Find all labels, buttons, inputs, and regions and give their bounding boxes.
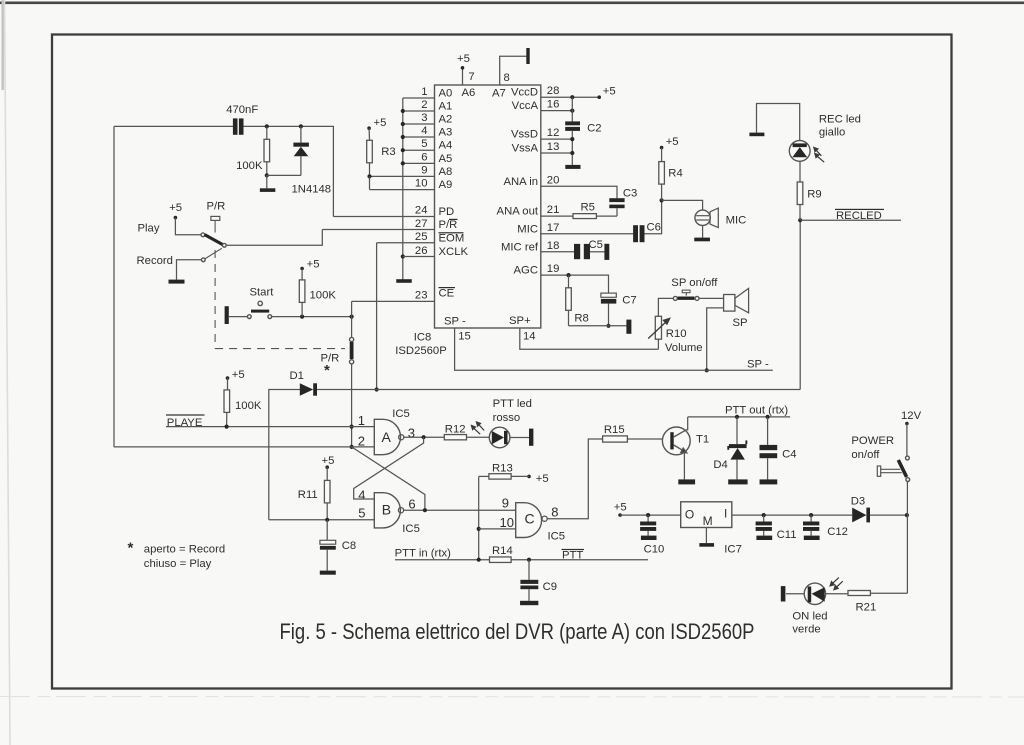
wire pin 7 (A6) to +5: [462, 68, 464, 85]
capacitor C2: [565, 121, 580, 125]
svg-text:M: M: [703, 514, 713, 528]
wire gate C pin 10: [479, 528, 516, 530]
wire PTT out line: [688, 416, 790, 418]
svg-text:IC5: IC5: [402, 523, 420, 535]
terminal bar C5: [604, 244, 609, 260]
wire gate B output: [404, 509, 516, 511]
svg-text:B: B: [382, 502, 391, 518]
junction C4: [766, 415, 770, 419]
svg-text:100K: 100K: [236, 160, 263, 172]
regulator IC7: [681, 502, 732, 528]
junction speaker SP-: [705, 368, 709, 372]
wire C3 to pin 21: [616, 208, 618, 216]
wire T1 emitter to ground: [683, 451, 685, 479]
wire Start left: [229, 316, 248, 318]
svg-text:28: 28: [547, 85, 560, 97]
junction Start CE: [350, 315, 354, 319]
svg-text:R11: R11: [298, 489, 318, 501]
wire pin 8 (A7): [500, 56, 527, 85]
svg-text:Fig. 5 - Schema elettrico del: Fig. 5 - Schema elettrico del DVR (parte…: [280, 619, 755, 644]
wire C9 top: [528, 560, 530, 580]
svg-text:D4: D4: [713, 459, 727, 471]
wire left net vertical: [113, 126, 115, 447]
svg-text:R13: R13: [492, 463, 513, 475]
wire pin 5 (A4): [403, 149, 435, 151]
svg-text:7: 7: [468, 71, 474, 83]
svg-text:3: 3: [421, 112, 427, 124]
microphone MIC: [695, 210, 710, 225]
svg-text:8: 8: [504, 72, 510, 84]
svg-text:C6: C6: [647, 222, 661, 234]
wire MIC to ground: [702, 226, 704, 238]
capacitor C5: [574, 244, 580, 259]
svg-text:SP: SP: [733, 317, 748, 329]
svg-text:VssD: VssD: [511, 129, 538, 141]
svg-text:9: 9: [502, 496, 509, 511]
svg-text:C10: C10: [644, 544, 665, 556]
wire pin 20 ANA in: [541, 186, 617, 198]
svg-text:+5: +5: [614, 502, 627, 514]
junction Start pullup: [300, 315, 304, 319]
svg-text:17: 17: [547, 222, 560, 234]
svg-text:RECLED: RECLED: [836, 210, 882, 222]
diode D 1N4148: [293, 143, 309, 147]
svg-text:Play: Play: [138, 223, 160, 235]
wire R15 to T1: [627, 438, 662, 440]
wire R12 to LED: [467, 436, 490, 438]
svg-text:POWER: POWER: [851, 435, 894, 447]
svg-text:A8: A8: [439, 166, 453, 178]
node +5 Play: [174, 216, 178, 220]
svg-text:aperto = Record: aperto = Record: [144, 544, 225, 556]
terminal bar AGC: [626, 320, 631, 334]
svg-text:C4: C4: [782, 449, 796, 461]
ground C4: [760, 479, 778, 484]
svg-text:R10: R10: [666, 328, 687, 340]
wire Start right: [272, 316, 352, 318]
terminal bar ON led: [781, 586, 786, 601]
diode D1: [300, 383, 313, 395]
capacitor C12: [810, 515, 812, 521]
svg-text:T1: T1: [696, 434, 709, 446]
svg-text:A7: A7: [492, 88, 506, 100]
svg-text:+5: +5: [232, 369, 245, 381]
svg-text:6: 6: [408, 497, 415, 512]
wire R13 left vertical: [479, 475, 489, 477]
wire 100K body stubs: [266, 126, 268, 139]
svg-text:A5: A5: [439, 153, 453, 165]
svg-text:R15: R15: [604, 424, 625, 436]
svg-text:giallo: giallo: [819, 127, 845, 139]
wire T1 collector: [687, 417, 688, 430]
svg-text:25: 25: [415, 231, 428, 243]
capacitor C9: [520, 580, 538, 584]
wire pin 13: [541, 152, 573, 154]
svg-text:IC5: IC5: [548, 531, 566, 543]
svg-text:XCLK: XCLK: [439, 246, 469, 258]
svg-text:A: A: [382, 429, 392, 445]
wire IC7 output line: [732, 514, 852, 516]
junction C9: [527, 558, 531, 562]
resistor R21: [848, 591, 870, 596]
switch SP on/off: [673, 296, 677, 300]
switch P/R* bottom contact: [350, 360, 354, 364]
svg-text:+5: +5: [457, 53, 470, 65]
ground D4: [728, 479, 747, 484]
wire D3 to 12V rail: [870, 514, 907, 516]
svg-text:EOM: EOM: [439, 233, 465, 245]
wire pin 27 (P/R): [322, 229, 434, 231]
svg-text:IC7: IC7: [724, 544, 742, 556]
svg-text:16: 16: [547, 99, 560, 111]
junction: [401, 161, 405, 165]
ground C2: [565, 165, 580, 169]
wire PLAYE to gate A pin 1: [166, 426, 374, 428]
svg-text:1N4148: 1N4148: [292, 183, 332, 195]
LED REC led giallo: [789, 141, 810, 162]
junction gate A pin1: [350, 425, 354, 429]
node +5 VccD: [597, 95, 601, 99]
LED PTT arrows: [471, 422, 484, 434]
junction gate B out: [423, 508, 427, 512]
wire pullup stubs: [227, 378, 229, 390]
junction VssA: [570, 151, 574, 155]
svg-text:ANA in: ANA in: [503, 176, 538, 188]
svg-text:12: 12: [547, 127, 560, 139]
junction: [401, 122, 405, 126]
junction 12V rail: [905, 513, 909, 517]
wire C9 to ground: [528, 589, 530, 601]
svg-text:A6: A6: [462, 87, 476, 99]
wire address bus vertical: [402, 98, 404, 280]
svg-text:VccA: VccA: [512, 100, 539, 112]
svg-text:C2: C2: [587, 123, 601, 135]
svg-text:C: C: [525, 511, 535, 527]
switch P/R lever: [205, 235, 223, 245]
junction gate A out: [422, 435, 426, 439]
LED ON arrows: [830, 578, 843, 590]
junction R13 vertical R14: [477, 558, 481, 562]
svg-text:15: 15: [458, 331, 471, 343]
wire EOM vertical: [376, 243, 378, 390]
resistor 100K PLAYE pullup: [224, 390, 230, 413]
svg-text:24: 24: [415, 205, 428, 217]
LED PTT led rosso: [489, 427, 510, 448]
wire pin 9 (A8): [370, 175, 435, 177]
wire RECLED label line: [800, 219, 901, 221]
wire pin 3 (A2): [403, 123, 435, 125]
svg-text:3: 3: [408, 426, 415, 441]
zener diode D4: [729, 444, 747, 448]
wire D1 anode branch: [269, 390, 300, 520]
junction 100K top: [265, 124, 269, 128]
wire +5 to IC7: [620, 514, 681, 516]
capacitor C6: [633, 225, 638, 242]
wire pin 15 SP-: [455, 328, 773, 370]
svg-text:VssA: VssA: [512, 143, 539, 155]
junction 100K bottom: [265, 173, 269, 177]
svg-text:6: 6: [421, 151, 427, 163]
svg-text:D1: D1: [290, 370, 304, 382]
resistor R3: [367, 140, 373, 163]
junction pullup PLAYE: [225, 425, 229, 429]
wire gate C output to R15: [547, 439, 602, 519]
wire switch down rail: [906, 482, 908, 594]
wire REC led anode to bar: [757, 104, 800, 141]
svg-text:1: 1: [421, 86, 427, 98]
wire D4 bottom: [736, 460, 738, 480]
wire R3 stubs: [368, 128, 370, 140]
svg-text:Record: Record: [137, 255, 173, 267]
svg-text:ANA out: ANA out: [497, 206, 539, 218]
wire gate A output: [404, 436, 444, 438]
wire C7 bottom: [608, 304, 610, 326]
ground Record: [169, 280, 185, 284]
svg-text:+5: +5: [374, 117, 387, 129]
svg-text:SP on/off: SP on/off: [671, 277, 718, 289]
wire 100K bottom to diode: [267, 174, 301, 176]
ground 100K: [260, 188, 276, 192]
wire switch to speaker: [699, 297, 724, 299]
wire C2 bottom to ground: [571, 131, 573, 165]
svg-text:8: 8: [551, 505, 558, 520]
junction EOM D1: [375, 387, 379, 391]
wire C4 bottom: [767, 458, 769, 479]
junction 1N4148 top: [299, 124, 303, 128]
wire Play branch: [175, 218, 201, 235]
svg-text:R4: R4: [668, 168, 682, 180]
wire C4 top: [767, 417, 769, 445]
svg-text:I: I: [724, 507, 727, 521]
wire pin 10 (A9): [370, 189, 435, 191]
node +5 R3: [367, 126, 371, 130]
svg-text:+5: +5: [603, 85, 616, 97]
svg-text:20: 20: [547, 174, 560, 186]
capacitor C470 value 470nF: [233, 118, 238, 134]
wire pin 12: [541, 138, 573, 140]
svg-text:VccD: VccD: [511, 87, 538, 99]
svg-text:IC8: IC8: [414, 332, 432, 344]
capacitor C4: [760, 445, 778, 450]
svg-text:13: 13: [547, 141, 560, 153]
resistor 100K pulldown: [264, 139, 270, 162]
wire 100K to ground: [266, 175, 268, 188]
wire C8 to ground: [326, 550, 328, 571]
junction C7 bottom: [606, 324, 610, 328]
svg-text:R14: R14: [492, 545, 513, 557]
svg-text:A4: A4: [439, 140, 453, 152]
svg-text:21: 21: [547, 204, 560, 216]
junction XCLK: [401, 254, 405, 258]
node +5 pin7: [461, 66, 465, 70]
svg-text:CE: CE: [439, 288, 455, 300]
svg-text:C12: C12: [827, 526, 848, 538]
wire pin 16: [541, 110, 573, 112]
wire LED to bar: [786, 593, 804, 595]
resistor 100K Start pullup: [299, 280, 305, 303]
svg-text:23: 23: [415, 289, 428, 301]
wire 470nF to PD corner: [244, 126, 334, 216]
wire R11 stubs: [326, 467, 328, 480]
wire PTT in line: [395, 559, 490, 561]
svg-text:PTT in (rtx): PTT in (rtx): [395, 548, 452, 560]
wire pin 28 to +5: [541, 96, 599, 98]
junction C11: [762, 513, 766, 517]
junction C12: [809, 513, 813, 517]
wire D4 top: [736, 417, 738, 444]
ground T1: [678, 479, 695, 484]
wire P/R common to pin 27: [226, 230, 322, 246]
switch P/R* lever: [350, 342, 354, 359]
svg-text:10: 10: [500, 515, 514, 530]
svg-text:R12: R12: [445, 424, 466, 436]
wire speaker to SP- rail: [707, 308, 724, 370]
svg-text:PTT out (rtx): PTT out (rtx): [725, 405, 788, 417]
wire R10 top to switch: [658, 298, 673, 316]
resistor R15: [603, 436, 628, 442]
LED REC arrows: [814, 147, 824, 162]
capacitor C7 polarized: [601, 293, 616, 297]
svg-text:O: O: [685, 508, 694, 522]
wire LED to bar: [510, 437, 529, 439]
wire pin 4 (A3): [403, 136, 435, 138]
wire C2 top: [571, 97, 573, 121]
junction VssD: [570, 137, 574, 141]
svg-text:+5: +5: [666, 136, 679, 148]
resistor R8: [566, 288, 572, 311]
svg-text:5: 5: [421, 138, 427, 150]
svg-text:chiuso = Play: chiuso = Play: [144, 558, 212, 570]
svg-text:A9: A9: [439, 179, 453, 191]
junction R3 pin9: [367, 174, 371, 178]
wire R14 to PTT: [511, 559, 648, 561]
wire pin 2 (A1): [403, 110, 435, 112]
wire left net horizontal: [114, 125, 233, 127]
svg-text:*: *: [324, 362, 330, 379]
switch P/R handle: [211, 216, 220, 220]
ground C8: [320, 571, 336, 575]
diode D3: [852, 508, 866, 523]
svg-text:+5: +5: [536, 473, 549, 485]
capacitor C8 polarized: [320, 540, 336, 544]
svg-text:C7: C7: [622, 295, 636, 307]
transistor T1: [662, 427, 690, 455]
svg-text:+5: +5: [322, 455, 335, 467]
svg-text:PTT led: PTT led: [493, 398, 532, 410]
junction VccD C2: [570, 95, 574, 99]
svg-text:2: 2: [358, 434, 365, 449]
terminal bar pin 8: [526, 48, 529, 64]
svg-text:A0: A0: [439, 88, 453, 100]
gate IC5-C nand: [516, 503, 542, 538]
wire pin 25 (EOM): [377, 242, 435, 244]
svg-text:AGC: AGC: [514, 265, 538, 277]
node +5 Start: [300, 267, 304, 271]
junction AGC R8: [566, 273, 570, 277]
junction C10: [646, 513, 650, 517]
wire R21 to LED: [826, 593, 848, 595]
ground IC7: [699, 543, 714, 547]
svg-text:PD: PD: [439, 206, 455, 218]
wire left net to gate A pin 2: [114, 446, 374, 448]
svg-text:P/R: P/R: [439, 219, 458, 231]
resistor R13: [489, 474, 511, 479]
svg-text:R8: R8: [574, 313, 588, 325]
svg-text:P/R: P/R: [207, 201, 226, 213]
wire pin 14 SP+: [520, 328, 659, 349]
svg-text:ON led: ON led: [792, 611, 827, 623]
svg-text:PTT: PTT: [562, 550, 583, 562]
wire pin 19 AGC: [541, 275, 609, 293]
svg-text:IC5: IC5: [392, 408, 410, 420]
resistor R4: [659, 162, 665, 185]
wire pin 26 (XCLK): [403, 256, 435, 258]
svg-text:on/off: on/off: [851, 449, 880, 461]
svg-text:A2: A2: [439, 114, 453, 126]
wire cross coupling B to A: [352, 447, 425, 510]
wire R4 stubs: [661, 148, 663, 162]
wire C5 to bar: [590, 251, 604, 253]
svg-text:12V: 12V: [901, 410, 922, 422]
gate IC5-A nand: [374, 419, 400, 454]
wire R8 stubs: [568, 275, 570, 288]
svg-text:R9: R9: [807, 189, 821, 201]
wire cross coupling A to B: [354, 437, 424, 499]
svg-text:R21: R21: [856, 602, 877, 614]
svg-text:MIC: MIC: [726, 215, 747, 227]
svg-text:SP+: SP+: [509, 315, 531, 327]
svg-text:Start: Start: [250, 286, 275, 298]
capacitor C3: [609, 198, 624, 202]
resistor R11: [324, 480, 330, 503]
capacitor C10: [647, 515, 649, 521]
svg-text:R5: R5: [581, 202, 595, 214]
svg-text:rosso: rosso: [493, 412, 521, 424]
svg-text:C9: C9: [543, 581, 557, 593]
svg-text:+5: +5: [307, 259, 320, 271]
svg-text:REC led: REC led: [819, 113, 861, 125]
wire rail to R21: [870, 592, 907, 594]
wire P/R* to gate inputs: [351, 364, 353, 447]
wire C6 to R4 junction: [645, 200, 662, 233]
svg-text:+5: +5: [169, 202, 182, 214]
junction: [401, 135, 405, 139]
speaker SP: [724, 295, 735, 312]
wire EOM to REC led net: [377, 389, 801, 391]
svg-text:C8: C8: [342, 540, 356, 552]
svg-text:Volume: Volume: [665, 342, 703, 354]
svg-text:A3: A3: [439, 127, 453, 139]
wire pin 17 MIC: [541, 233, 633, 235]
junction gate A pin2: [350, 445, 354, 449]
svg-text:MIC ref: MIC ref: [501, 241, 539, 253]
svg-text:27: 27: [415, 218, 428, 230]
node +5 IC7: [618, 513, 622, 517]
junction R13 pin10: [477, 527, 481, 531]
svg-text:100K: 100K: [310, 290, 337, 302]
svg-text:14: 14: [523, 331, 536, 343]
wire R3 to pin10: [369, 176, 371, 189]
resistor R9: [797, 182, 803, 205]
wire gate B pin 5 line: [269, 519, 375, 521]
mechanical link dashed: [214, 250, 216, 349]
svg-text:SP -: SP -: [747, 359, 769, 371]
node +5 R4: [660, 146, 664, 150]
switch P/R common contact: [222, 243, 226, 247]
wire pin 18 MIC ref: [541, 251, 574, 253]
junction: [401, 148, 405, 152]
junction R11 C8: [325, 518, 329, 522]
